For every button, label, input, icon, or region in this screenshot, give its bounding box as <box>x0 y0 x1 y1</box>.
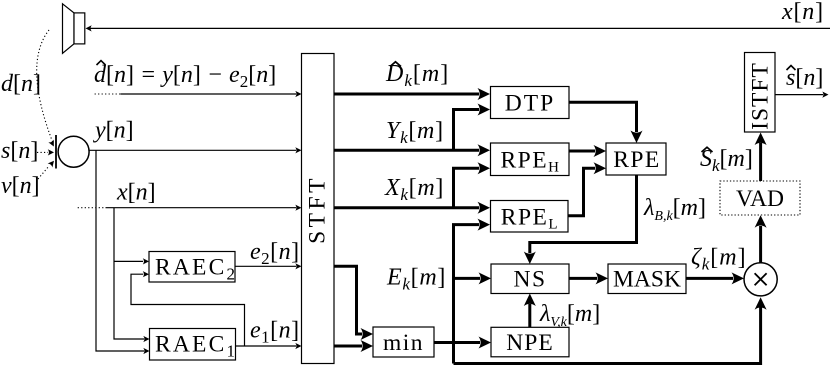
RPE_L block <box>491 201 569 233</box>
svg-text:VAD: VAD <box>736 186 784 212</box>
svg-text:NPE: NPE <box>506 330 553 356</box>
svg-text:e2[n]: e2[n] <box>250 239 300 268</box>
svg-text:ISTFT: ISTFT <box>748 62 774 130</box>
wire NPE up to NS <box>524 294 536 328</box>
svg-text:s[n]: s[n] <box>1 138 38 164</box>
svg-text:s[n]: s[n] <box>786 65 823 91</box>
svg-text:RPE: RPE <box>613 147 661 173</box>
svg-text:λB,k[m]: λB,k[m] <box>643 195 706 224</box>
wire e2 into STFT <box>235 263 302 269</box>
svg-text:Sk[m]: Sk[m] <box>700 146 753 175</box>
wire RPE out down to NS <box>524 175 637 264</box>
wire min out to NPE through bus <box>434 337 491 349</box>
svg-text:d[n] = y[n] − e2[n]: d[n] = y[n] − e2[n] <box>94 62 276 91</box>
wire y into STFT <box>89 147 302 153</box>
wire RPE_H out to RPE <box>569 145 606 157</box>
wire x into STFT <box>78 205 302 211</box>
svg-text:STFT: STFT <box>305 175 331 244</box>
arrow v[n] into mic <box>38 159 56 179</box>
RAEC_1 block <box>150 329 236 361</box>
loudspeaker <box>63 4 85 54</box>
svg-text:v[n]: v[n] <box>1 173 40 199</box>
wire Dhat STFT to DTP <box>334 88 490 100</box>
svg-text:DTP: DTP <box>505 91 555 117</box>
svg-text:RAEC1: RAEC1 <box>155 332 235 361</box>
wire Y branch up to DTP <box>454 104 491 151</box>
wire E bottom rail to multiplier <box>454 297 767 363</box>
wire MASK out to multiplier <box>686 272 744 284</box>
wire STFT to min lower <box>334 340 373 352</box>
hat over S <box>702 147 713 152</box>
wire x[n] top line to loudspeaker <box>86 25 830 31</box>
MASK block <box>608 264 686 294</box>
arrow s[n] into mic <box>37 149 54 155</box>
hat over s <box>787 66 796 71</box>
svg-text:NS: NS <box>513 267 546 293</box>
svg-text:x[n]: x[n] <box>116 180 156 206</box>
VAD block dashed <box>720 181 800 215</box>
svg-text:Dk[m]: Dk[m] <box>385 61 449 90</box>
wire multiplier up to VAD <box>755 215 767 263</box>
svg-text:Yk[m]: Yk[m] <box>386 118 444 147</box>
wire DTP out to RPE top <box>569 102 643 143</box>
wire Y STFT to RPE_H <box>334 144 490 156</box>
wire e1 feedback into RAEC_2 <box>131 271 245 346</box>
DTP block <box>491 87 570 119</box>
wire X STFT to RPE_L <box>334 202 490 214</box>
svg-text:Ek[m]: Ek[m] <box>386 265 446 294</box>
hat over d in equation <box>97 61 106 65</box>
svg-text:MASK: MASK <box>613 267 681 293</box>
wire dhat into STFT <box>95 91 302 97</box>
min block <box>373 327 434 357</box>
wire x bus down to RAEC blocks <box>114 208 150 342</box>
wire STFT to min upper <box>334 266 373 340</box>
STFT block <box>302 54 335 364</box>
svg-text:λV,k[m]: λV,k[m] <box>539 301 600 330</box>
echo path d[n] dashed arc from speaker to mic <box>37 30 57 148</box>
wire VAD up to ISTFT <box>755 133 767 182</box>
svg-text:min: min <box>383 330 424 356</box>
wire y bus down to RAEC1 <box>96 150 150 354</box>
wire RPE_L out to RPE <box>568 162 606 216</box>
svg-text:y[n]: y[n] <box>93 118 134 144</box>
svg-text:RAEC2: RAEC2 <box>155 255 235 284</box>
microphone <box>56 135 89 169</box>
svg-text:x[n]: x[n] <box>781 0 824 25</box>
svg-text:Xk[m]: Xk[m] <box>384 175 444 204</box>
ISTFT block <box>745 53 776 133</box>
RAEC_2 block <box>149 252 235 284</box>
svg-text:e1[n]: e1[n] <box>250 318 300 347</box>
svg-text:d[n]: d[n] <box>1 71 41 97</box>
NS block <box>491 264 569 294</box>
wire E branch to NS <box>454 272 492 284</box>
wire e1 into STFT <box>236 343 302 349</box>
RPE block <box>606 143 666 175</box>
wire E bus vertical <box>454 219 491 364</box>
hat over D <box>390 62 401 67</box>
NPE block <box>491 327 569 357</box>
RPE_H block <box>491 143 570 176</box>
wire X branch up to RPE_H <box>454 162 491 208</box>
multiplier circle <box>744 263 777 296</box>
svg-text:ζk[m]: ζk[m] <box>691 245 747 274</box>
wire NS out to MASK <box>569 272 608 284</box>
wire ISTFT out shat <box>775 92 829 98</box>
